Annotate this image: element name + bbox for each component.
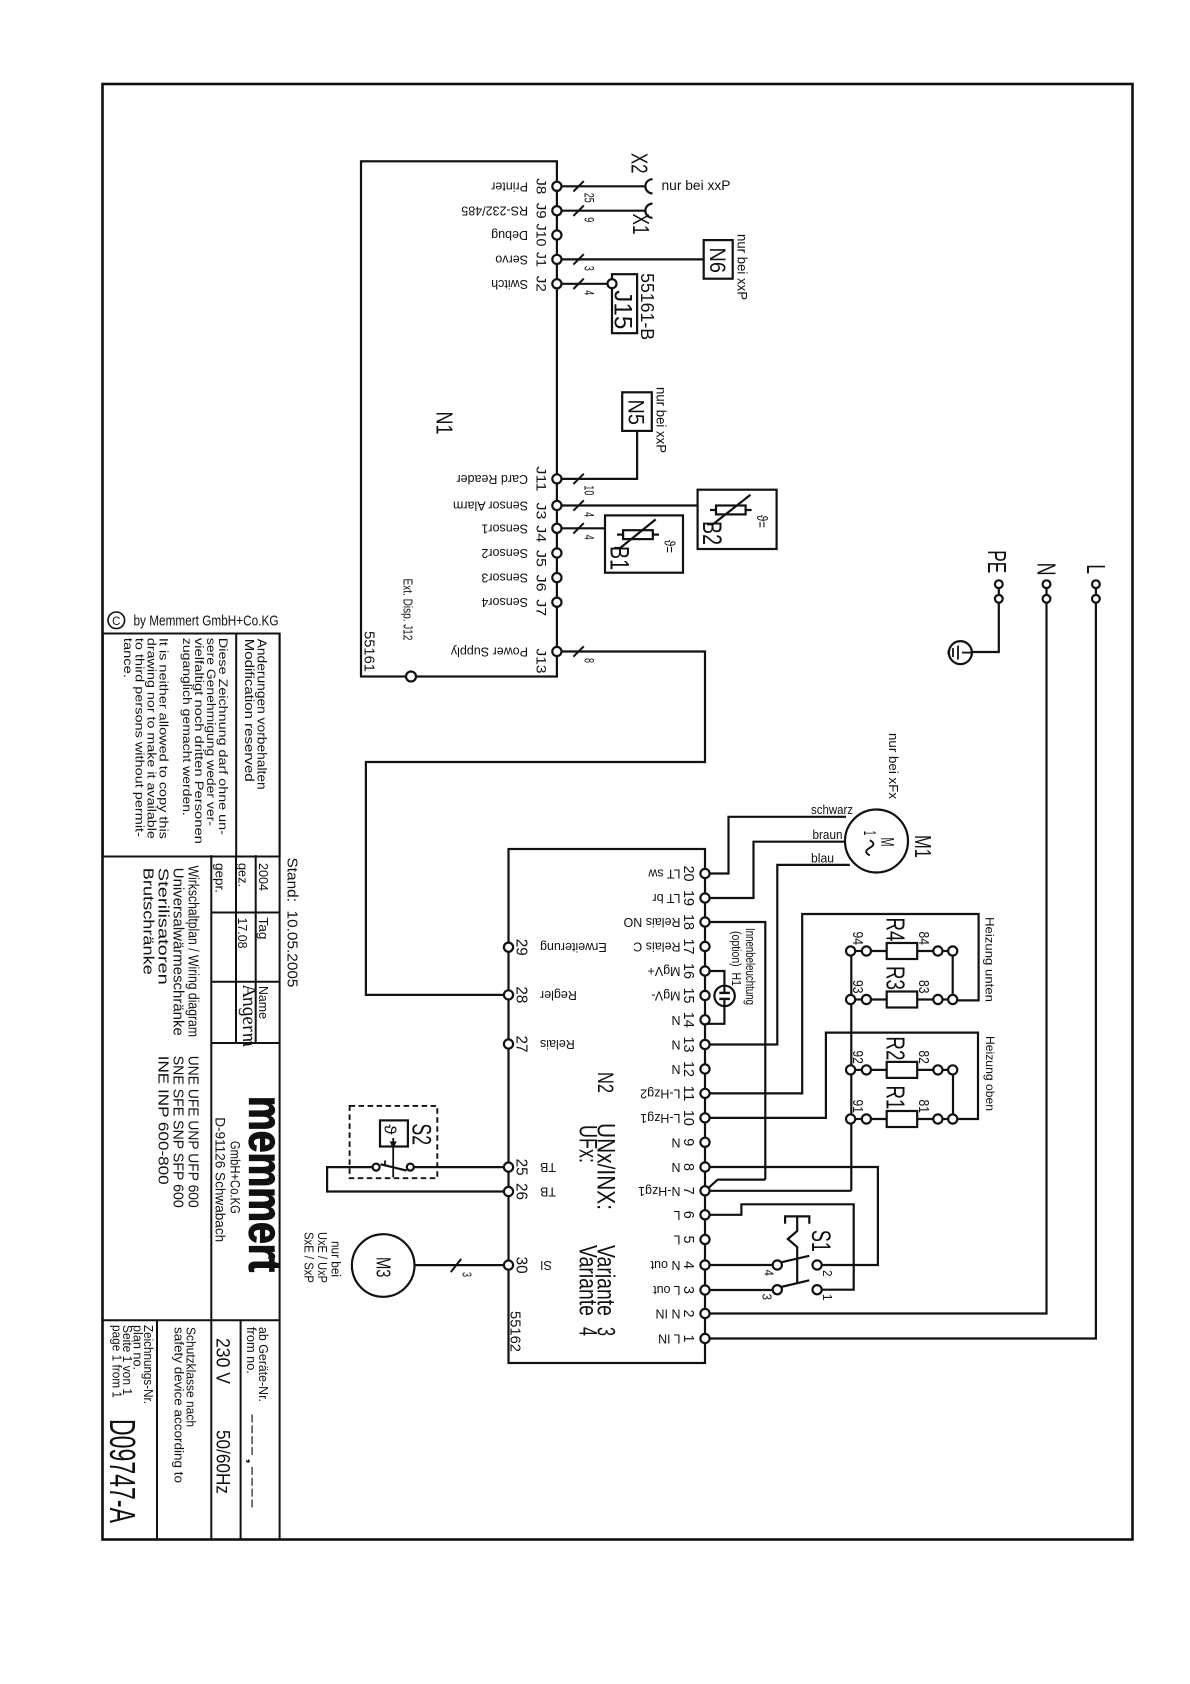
pin 16 circle on N2 right <box>700 966 709 975</box>
S2 switch arm <box>381 1164 407 1170</box>
svg-text:R1: R1 <box>881 1086 911 1110</box>
svg-text:J6: J6 <box>534 575 550 592</box>
wire M3 to pin 30 SI <box>415 1264 505 1266</box>
svg-text:nur bei: nur bei <box>329 1241 343 1277</box>
pin J9 circle <box>552 206 561 215</box>
svg-text:N1: N1 <box>432 412 458 435</box>
svg-text:J10: J10 <box>534 224 550 247</box>
svg-text:nur bei xxP: nur bei xxP <box>662 178 731 193</box>
svg-text:13: 13 <box>680 1037 697 1053</box>
pin 11 circle on N2 right <box>700 1089 709 1098</box>
svg-text:blau: blau <box>811 850 834 865</box>
tilde wave in motor <box>866 840 873 855</box>
terminal N circles <box>1045 588 1047 595</box>
svg-text:17: 17 <box>680 939 697 955</box>
earth ground symbol <box>949 641 972 664</box>
svg-text:B1: B1 <box>605 546 635 570</box>
svg-text:27: 27 <box>513 1036 530 1053</box>
copyright box <box>103 634 280 857</box>
svg-text:Variante: Variante <box>574 1245 602 1316</box>
S1 contact circles <box>773 1260 782 1269</box>
svg-text:11: 11 <box>680 1085 697 1101</box>
svg-text:R3: R3 <box>881 966 911 990</box>
pin 15 circle on N2 right <box>700 991 709 1000</box>
svg-text:tance.: tance. <box>121 638 135 678</box>
module N5 box <box>622 392 652 431</box>
svg-text:25: 25 <box>513 1159 530 1176</box>
svg-text:J11: J11 <box>534 466 550 491</box>
svg-text:J5: J5 <box>534 550 550 567</box>
svg-text:Erweiterung: Erweiterung <box>540 940 607 954</box>
svg-text:N out: N out <box>650 1258 680 1272</box>
terminal circles R3 <box>846 995 855 1004</box>
module N6 box <box>704 240 733 279</box>
svg-text:braun: braun <box>813 827 843 842</box>
svg-text:82: 82 <box>915 1050 932 1064</box>
wire J2 Switch to J15 <box>561 283 607 285</box>
S2 arm tick <box>384 1161 386 1166</box>
svg-text:3: 3 <box>760 1294 775 1301</box>
svg-text:4: 4 <box>762 1270 777 1277</box>
lamp H1 circle <box>714 986 734 1006</box>
pin 29 circle on N2 left <box>504 943 513 952</box>
svg-text:Sensor2: Sensor2 <box>481 546 528 560</box>
terminal L circles <box>1095 588 1097 595</box>
svg-text:J15: J15 <box>609 290 637 329</box>
pin J7 circle <box>552 598 561 607</box>
motor M1 circle <box>845 810 908 873</box>
motor M3 circle <box>352 1234 415 1297</box>
svg-text:GmbH+Co.KG: GmbH+Co.KG <box>228 1141 244 1214</box>
svg-text:MgV-: MgV- <box>651 989 680 1003</box>
svg-text:230 V: 230 V <box>212 1338 233 1384</box>
svg-text:TB: TB <box>540 1185 556 1199</box>
pin7 jog diagonal to pin18 wire <box>708 1180 765 1189</box>
pin J2 circle <box>552 279 561 288</box>
svg-text:N: N <box>671 1038 680 1052</box>
svg-text:L IN: L IN <box>658 1332 680 1346</box>
slash 4 on J2 wire <box>573 279 583 289</box>
terminal circles R4 <box>846 946 855 955</box>
svg-text:memmert: memmert <box>239 1096 290 1272</box>
svg-text:25: 25 <box>582 193 597 203</box>
svg-text:4: 4 <box>582 290 597 295</box>
pin 1 circle on N2 right <box>700 1334 709 1343</box>
svg-text:4: 4 <box>574 1327 602 1336</box>
svg-text:9: 9 <box>680 1138 697 1146</box>
resistor R3 <box>855 998 866 1000</box>
connector J15 box <box>612 274 637 333</box>
svg-text:6: 6 <box>680 1211 697 1219</box>
wire N5 to J11 Card Reader <box>561 431 637 479</box>
svg-text:N6: N6 <box>705 248 730 274</box>
svg-text:81: 81 <box>915 1100 932 1114</box>
svg-text:S2: S2 <box>407 1124 437 1146</box>
svg-text:4: 4 <box>582 512 597 517</box>
slash 4 on J4 wire <box>573 523 583 533</box>
pin 12 circle on N2 right <box>700 1064 709 1073</box>
pin 20 circle on N2 right <box>700 869 709 878</box>
connector X2 socket arc <box>645 179 652 193</box>
svg-text:Modification reserved: Modification reserved <box>242 639 257 782</box>
svg-text:8: 8 <box>680 1163 697 1171</box>
sensor B2 box <box>698 490 777 549</box>
svg-text:N: N <box>1032 563 1062 576</box>
svg-text:----,----: ----,---- <box>244 1413 261 1509</box>
right rail R2-R1 <box>952 1070 954 1119</box>
svg-text:Sensor1: Sensor1 <box>481 521 528 535</box>
svg-text:UxE / UxP: UxE / UxP <box>315 1232 329 1283</box>
pin 18 circle on N2 right <box>700 917 709 926</box>
svg-text:N5: N5 <box>624 400 649 426</box>
svg-text:L-Hzg1: L-Hzg1 <box>640 1111 680 1125</box>
svg-text:PE: PE <box>982 550 1012 573</box>
pin J13 circle <box>552 647 561 656</box>
svg-text:N-Hzg1: N-Hzg1 <box>638 1184 680 1198</box>
pin 26 circle on N2 left <box>504 1187 513 1196</box>
pin 19 circle on N2 right <box>700 893 709 902</box>
resistor R4 <box>855 950 866 952</box>
svg-text:C: C <box>112 616 120 628</box>
title block cell lines <box>103 856 280 858</box>
pin J10 circle <box>552 230 561 239</box>
svg-text:Heizung unten: Heizung unten <box>983 917 997 1002</box>
pin 4 circle on N2 right <box>700 1260 709 1269</box>
switch S1 arm 4-2 <box>781 1256 809 1263</box>
pin 6 circle on N2 right <box>700 1210 709 1219</box>
wire pin19 to motor M1 braun <box>709 842 845 898</box>
page frame border <box>103 84 1133 1540</box>
wire S2 to pin 25 TB <box>414 1166 504 1168</box>
pin J3 circle <box>552 501 561 510</box>
pin J6 circle <box>552 573 561 582</box>
switch S1 arm 3-1 <box>781 1280 809 1287</box>
thermostat S2 dashed box <box>350 1106 438 1178</box>
svg-text:Ext. Disp. J12: Ext. Disp. J12 <box>401 579 415 641</box>
terminal circles R2 <box>846 1065 855 1074</box>
svg-text:RS-232/485: RS-232/485 <box>461 204 528 218</box>
pin 8 circle on N2 right <box>700 1162 709 1171</box>
copyright box divider <box>235 634 237 857</box>
pin J11 circle <box>552 474 561 483</box>
pin J4 circle <box>552 524 561 533</box>
svg-text:84: 84 <box>915 932 932 946</box>
wire pin7 N-Hzg1 to heater common <box>709 1190 851 1192</box>
svg-text:20: 20 <box>680 866 697 882</box>
thermistor symbol in B1 <box>623 530 653 539</box>
svg-text:S1: S1 <box>806 1230 836 1252</box>
pin 5 circle on N2 right <box>700 1235 709 1244</box>
svg-text:15: 15 <box>680 988 697 1004</box>
wire pin1 to terminal L <box>709 603 1096 1339</box>
svg-text:30: 30 <box>513 1257 530 1274</box>
svg-text:50/60Hz: 50/60Hz <box>212 1430 233 1494</box>
svg-text:X2: X2 <box>627 153 653 174</box>
svg-text:5: 5 <box>680 1236 697 1244</box>
svg-text:Relais NO: Relais NO <box>623 915 680 929</box>
pin 17 circle on N2 right <box>700 942 709 951</box>
wire J1 Servo to N6 <box>561 258 703 260</box>
pin 13 circle on N2 right <box>700 1040 709 1049</box>
pin J1 circle <box>552 255 561 264</box>
pin 30 circle on N2 left <box>504 1261 513 1270</box>
svg-text:page 1 from 1: page 1 from 1 <box>110 1325 124 1398</box>
svg-text:28: 28 <box>513 986 530 1003</box>
svg-text:SxE / SxP: SxE / SxP <box>302 1232 316 1283</box>
slash 8 on J13 wire <box>573 646 583 656</box>
slash 25 on J8 wire <box>573 181 583 191</box>
svg-text:N: N <box>671 1160 680 1174</box>
svg-text:7: 7 <box>680 1187 697 1195</box>
svg-text:94: 94 <box>849 932 866 946</box>
wire pin11 L-Hzg2 to Heizung unten loop <box>709 914 978 1093</box>
wire J3 Sensor Alarm to B2 <box>561 504 697 506</box>
svg-text:N IN: N IN <box>656 1307 681 1321</box>
svg-text:29: 29 <box>513 939 530 956</box>
svg-text:(option) H1: (option) H1 <box>729 931 743 986</box>
svg-text:B2: B2 <box>697 521 727 545</box>
svg-text:4: 4 <box>680 1261 697 1269</box>
svg-text:3: 3 <box>582 266 597 271</box>
svg-text:Brutschränke: Brutschränke <box>140 868 157 975</box>
svg-text:nur bei xxP: nur bei xxP <box>735 234 750 300</box>
pin 10 circle on N2 right <box>700 1113 709 1122</box>
svg-text:19: 19 <box>680 890 697 906</box>
svg-text:Sensor4: Sensor4 <box>481 595 528 609</box>
svg-text:zuganglich gemacht werden.: zuganglich gemacht werden. <box>180 638 194 816</box>
svg-text:L-Hzg2: L-Hzg2 <box>640 1086 680 1100</box>
svg-text:J2: J2 <box>534 276 550 292</box>
resistor R1 <box>855 1118 866 1120</box>
svg-text:4: 4 <box>582 535 597 540</box>
svg-text:M1: M1 <box>910 835 936 858</box>
svg-text:ϑ=: ϑ= <box>753 515 769 528</box>
svg-text:Debug: Debug <box>491 228 528 242</box>
svg-text:Stand: 10.05.2005: Stand: 10.05.2005 <box>284 858 300 988</box>
svg-text:8: 8 <box>582 658 597 663</box>
svg-text:gepr.: gepr. <box>213 863 228 893</box>
svg-text:M3: M3 <box>372 1257 394 1278</box>
svg-text:55162: 55162 <box>507 1311 523 1352</box>
svg-text:2: 2 <box>820 1270 835 1277</box>
pin 2 circle on N2 right <box>700 1309 709 1318</box>
power board N2 box <box>509 849 706 1363</box>
svg-text:M: M <box>877 838 897 847</box>
wire pin20 to motor M1 schwarz <box>709 817 846 874</box>
slash 10 on J11 wire <box>573 474 583 484</box>
right rail R4-R3 <box>952 951 954 1000</box>
connector X1 socket arc <box>645 204 652 218</box>
svg-text:LT sw: LT sw <box>647 867 680 881</box>
controller N1 box <box>361 161 557 676</box>
svg-text:92: 92 <box>849 1050 866 1064</box>
slash 4 on J3 wire <box>573 500 583 510</box>
svg-text:X1: X1 <box>628 214 654 235</box>
svg-text:N2: N2 <box>593 1072 618 1093</box>
svg-text:SI: SI <box>540 1258 552 1272</box>
wire J8 to connector X2 <box>561 185 646 187</box>
svg-text:nur bei xFx: nur bei xFx <box>886 733 901 800</box>
svg-text:J13: J13 <box>534 649 550 674</box>
svg-text:Heizung oben: Heizung oben <box>983 1036 997 1111</box>
svg-text:D-91126 Schwabach: D-91126 Schwabach <box>213 1117 229 1242</box>
switch S1 bracket <box>785 1216 809 1223</box>
svg-text:J9: J9 <box>534 203 550 219</box>
svg-text:1: 1 <box>860 831 880 836</box>
wire pin6 to S1 contact 1 <box>709 1204 853 1289</box>
svg-text:nur bei xxP: nur bei xxP <box>654 387 669 453</box>
svg-text:L: L <box>1081 564 1111 574</box>
wire pin8 to S1 contact 2 <box>709 1167 878 1265</box>
svg-text:by Memmert GmbH+Co.KG: by Memmert GmbH+Co.KG <box>134 613 279 630</box>
svg-text:J8: J8 <box>534 178 550 194</box>
switch S1 actuator zigzag <box>788 1216 797 1284</box>
svg-text:Sensor Alarm: Sensor Alarm <box>453 499 528 513</box>
svg-text:Power Supply: Power Supply <box>450 645 528 659</box>
svg-text:26: 26 <box>513 1183 530 1200</box>
svg-text:93: 93 <box>849 980 866 994</box>
svg-text:Angerm: Angerm <box>238 980 260 1049</box>
svg-text:TB: TB <box>540 1160 556 1174</box>
svg-text:18: 18 <box>680 914 697 930</box>
svg-text:Relais: Relais <box>540 1037 575 1051</box>
svg-text:83: 83 <box>915 980 932 994</box>
pin J8 circle <box>552 182 561 191</box>
svg-text:Servo: Servo <box>495 252 528 266</box>
svg-text:from no.: from no. <box>244 1327 258 1374</box>
pin J5 circle <box>552 548 561 557</box>
svg-text:D09747-A: D09747-A <box>102 1419 143 1523</box>
svg-text:gez.: gez. <box>236 863 251 887</box>
S2 sensor rect <box>380 1120 408 1146</box>
pin 25 circle on N2 left <box>504 1163 513 1172</box>
svg-text:3: 3 <box>459 1272 473 1277</box>
thermistor symbol in B2 <box>716 506 746 515</box>
svg-text:MgV+: MgV+ <box>647 964 680 978</box>
svg-text:16: 16 <box>680 963 697 979</box>
pin circle J12 on N1 bottom <box>406 672 416 682</box>
slash 3 on M3 wire <box>451 1259 461 1272</box>
svg-text:Innenbeleuchtung: Innenbeleuchtung <box>743 928 757 1005</box>
wire PE to earth <box>972 603 999 652</box>
wire pin10 L-Hzg1 to Heizung oben loop <box>709 1033 978 1119</box>
wire pin16 to lamp H1 <box>709 971 724 993</box>
svg-text:Card Reader: Card Reader <box>456 472 528 486</box>
svg-text:12: 12 <box>680 1061 697 1077</box>
pin 27 circle on N2 left <box>504 1039 513 1048</box>
pin 7 circle on N2 right <box>700 1186 709 1195</box>
pin 28 circle on N2 left <box>504 990 513 999</box>
svg-text:R2: R2 <box>881 1036 911 1060</box>
slash 9 on J9 wire <box>573 206 583 216</box>
svg-text:N: N <box>671 1013 680 1027</box>
svg-text:INE INP 600-800: INE INP 600-800 <box>155 1056 172 1185</box>
svg-text:9: 9 <box>582 217 597 222</box>
svg-text:J7: J7 <box>534 599 550 616</box>
wire pin18 Relais NO down to pin7 jog <box>709 922 765 1180</box>
wire S2 to pin 26 TB <box>327 1167 504 1191</box>
wire lamp H1 to pin14 <box>706 999 725 1024</box>
svg-text:Sensor3: Sensor3 <box>481 571 528 585</box>
svg-text:17.08: 17.08 <box>235 918 250 949</box>
heater common left rail <box>850 951 852 1191</box>
pin 9 circle on N2 right <box>700 1138 709 1147</box>
svg-text:3: 3 <box>680 1286 697 1294</box>
svg-text:L: L <box>674 1208 681 1222</box>
S2 contact circles <box>373 1164 380 1171</box>
wire pin4 to S1 contact 4 <box>709 1264 773 1266</box>
svg-text:Regler: Regler <box>540 988 577 1002</box>
pin 14 circle on N2 right <box>700 1015 709 1024</box>
lamp H1 inner bars <box>719 992 730 994</box>
svg-text:14: 14 <box>680 1012 697 1028</box>
wire pin3 to S1 contact 3 <box>709 1289 773 1291</box>
svg-text:Printer: Printer <box>491 179 528 193</box>
resistor R2 <box>855 1069 866 1071</box>
svg-text:J3: J3 <box>534 503 550 520</box>
svg-text:safety device according to: safety device according to <box>172 1327 186 1483</box>
svg-text:10: 10 <box>582 485 597 495</box>
terminal circles R1 <box>846 1114 855 1123</box>
S2 actuator line with arrow <box>392 1138 394 1177</box>
svg-text:L out: L out <box>653 1283 681 1297</box>
wire pin13 to motor M1 blau <box>709 865 849 1045</box>
svg-text:1: 1 <box>680 1335 697 1343</box>
wire J4 Sensor1 to B1 <box>561 527 605 529</box>
copyright line <box>108 612 125 629</box>
svg-text:55161-B: 55161-B <box>637 273 657 340</box>
pin circle on J15 <box>608 279 617 288</box>
svg-text:UFx:: UFx: <box>574 1125 602 1163</box>
wire J9 to connector X1 <box>561 210 646 212</box>
svg-text:ϑ: ϑ <box>381 1125 400 1136</box>
terminal PE circles <box>998 588 1000 595</box>
svg-text:ϑ=: ϑ= <box>661 540 677 553</box>
svg-text:Relais C: Relais C <box>633 940 680 954</box>
svg-text:J1: J1 <box>534 252 550 267</box>
svg-text:L: L <box>674 1233 681 1247</box>
svg-text:Switch: Switch <box>491 277 528 291</box>
svg-text:55161: 55161 <box>361 631 377 672</box>
wire J13 Power Supply to N2 pin 28 Regler <box>366 652 705 995</box>
svg-text:2004: 2004 <box>256 863 271 891</box>
slash 3 on J1 wire <box>573 254 583 264</box>
svg-text:10: 10 <box>680 1110 697 1126</box>
svg-text:LT br: LT br <box>652 891 680 905</box>
svg-text:schwarz: schwarz <box>811 802 853 817</box>
svg-text:2: 2 <box>680 1310 697 1318</box>
sensor B1 box <box>605 515 683 572</box>
svg-text:Tag: Tag <box>256 918 271 940</box>
svg-text:R4: R4 <box>881 918 911 942</box>
svg-text:1: 1 <box>820 1294 835 1301</box>
pin 3 circle on N2 right <box>700 1285 709 1294</box>
svg-text:N: N <box>671 1135 680 1149</box>
wire pin2 to terminal N <box>709 603 1046 1314</box>
svg-text:91: 91 <box>849 1100 866 1114</box>
svg-text:J4: J4 <box>534 525 550 542</box>
svg-text:N: N <box>671 1062 680 1076</box>
